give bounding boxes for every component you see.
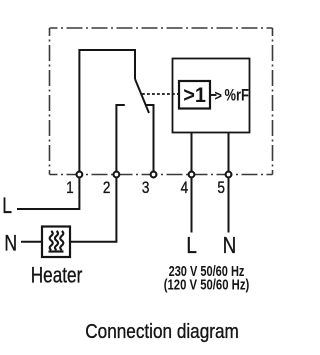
- svg-text:Connection diagram: Connection diagram: [85, 320, 239, 343]
- svg-text:(120 V 50/60 Hz): (120 V 50/60 Hz): [164, 276, 249, 293]
- svg-text:>: >: [215, 86, 222, 103]
- svg-text:N: N: [223, 233, 237, 258]
- svg-text:%rF: %rF: [225, 86, 249, 105]
- svg-text:Heater: Heater: [31, 263, 83, 288]
- svg-text:>1: >1: [183, 83, 206, 107]
- svg-text:1: 1: [66, 179, 74, 198]
- svg-text:2: 2: [103, 179, 111, 198]
- svg-text:4: 4: [181, 179, 189, 198]
- svg-text:N: N: [4, 232, 17, 256]
- svg-text:3: 3: [142, 179, 150, 198]
- svg-text:L: L: [186, 233, 196, 258]
- svg-text:L: L: [2, 194, 12, 218]
- svg-text:5: 5: [217, 179, 225, 198]
